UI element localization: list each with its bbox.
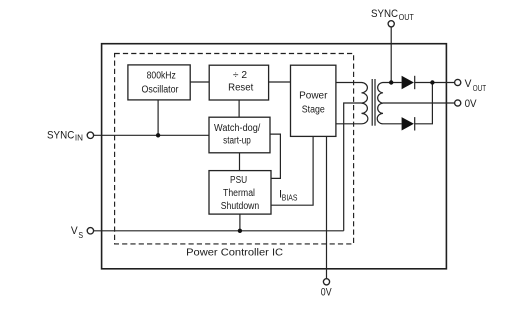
svg-text:S: S bbox=[78, 231, 83, 240]
svg-text:Thermal: Thermal bbox=[223, 188, 255, 199]
svg-text:800kHz: 800kHz bbox=[147, 70, 176, 81]
svg-text:SYNC: SYNC bbox=[371, 8, 398, 20]
svg-text:start-up: start-up bbox=[223, 135, 251, 146]
svg-text:V: V bbox=[71, 225, 78, 237]
svg-text:IN: IN bbox=[75, 134, 83, 143]
svg-text:Power: Power bbox=[299, 91, 328, 102]
svg-text:Power Controller IC: Power Controller IC bbox=[186, 247, 283, 258]
svg-text:0V: 0V bbox=[321, 286, 332, 298]
svg-text:Shutdown: Shutdown bbox=[221, 201, 260, 212]
svg-text:SYNC: SYNC bbox=[47, 130, 74, 142]
svg-text:0V: 0V bbox=[465, 98, 478, 110]
svg-text:Reset: Reset bbox=[228, 83, 253, 94]
svg-text:OUT: OUT bbox=[399, 13, 414, 22]
svg-text:BIAS: BIAS bbox=[282, 194, 298, 203]
svg-text:Oscillator: Oscillator bbox=[142, 85, 180, 96]
svg-text:÷ 2: ÷ 2 bbox=[233, 70, 248, 81]
svg-text:V: V bbox=[465, 78, 472, 90]
svg-text:PSU: PSU bbox=[230, 175, 247, 186]
svg-text:OUT: OUT bbox=[473, 84, 486, 93]
svg-text:Watch-dog/: Watch-dog/ bbox=[214, 123, 260, 134]
svg-text:Stage: Stage bbox=[302, 104, 325, 115]
